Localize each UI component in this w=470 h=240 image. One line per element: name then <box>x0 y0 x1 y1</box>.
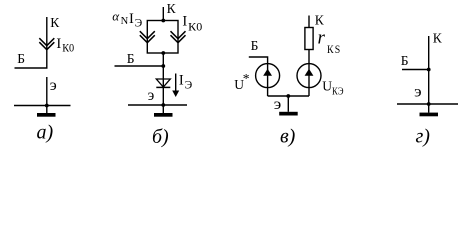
svg-text:К: К <box>433 31 443 46</box>
svg-text:I: I <box>129 11 134 27</box>
wire bottom rail (fig v) <box>268 88 309 96</box>
wire base (fig b) <box>115 65 164 67</box>
junction dot base (fig b) <box>161 64 165 68</box>
wire emitter rail (fig g) <box>397 103 458 105</box>
box of two current-source branches (fig b) <box>147 21 178 54</box>
svg-text:К0: К0 <box>188 22 202 34</box>
wire collector + base L (fig a) <box>15 17 47 68</box>
svg-text:К: К <box>50 15 60 30</box>
current arrow alphaN IE chevrons left branch (fig b) <box>140 31 155 43</box>
source U_KE circle (fig v) <box>297 64 321 88</box>
current arrow I_K0 chevrons (fig a) <box>39 38 54 50</box>
svg-text:в): в) <box>280 126 296 148</box>
junction dot rail (fig b) <box>161 103 165 107</box>
svg-text:*: * <box>243 71 250 86</box>
junction dot rail (fig g) <box>427 102 431 106</box>
svg-text:Б: Б <box>401 53 409 68</box>
svg-text:Б: Б <box>251 38 259 53</box>
svg-text:э: э <box>414 84 422 101</box>
label U* (fig v) <box>234 71 250 92</box>
resistor r_KS (fig v) <box>305 28 313 50</box>
junction dot (fig v) <box>286 94 290 98</box>
wire collector stub (fig b) <box>162 7 164 21</box>
wire base lead (fig v) <box>249 57 268 64</box>
label alphaN IE (fig b) <box>112 9 142 30</box>
ground (fig b) <box>162 105 164 113</box>
junction dot base (fig g) <box>427 68 431 72</box>
arrow inside U* (fig v) <box>267 64 269 88</box>
junction dot bottom (fig b) <box>161 51 165 55</box>
svg-text:К0: К0 <box>62 43 74 55</box>
arrow inside U_KE (fig v) <box>308 64 310 88</box>
svg-text:N: N <box>121 16 129 27</box>
label U_KE (fig v) <box>322 79 343 98</box>
wire resistor to source (fig v) <box>308 50 310 64</box>
source U* circle (fig v) <box>256 64 280 88</box>
label I_E (fig b) <box>179 73 193 92</box>
wire center vertical (fig b) <box>162 53 164 105</box>
svg-text:I: I <box>56 36 61 52</box>
svg-text:Б: Б <box>17 51 25 66</box>
diode VD (fig b) <box>156 79 170 87</box>
svg-text:r: r <box>318 28 326 49</box>
svg-text:α: α <box>112 9 120 24</box>
svg-text:КЭ: КЭ <box>332 86 344 98</box>
label I_K0 (fig b) <box>182 14 202 34</box>
svg-text:э: э <box>274 96 282 113</box>
svg-text:б): б) <box>152 126 169 148</box>
ground (fig g) <box>428 104 430 113</box>
junction dot (fig a) <box>45 104 49 108</box>
ground (fig v) <box>287 96 289 112</box>
label I_K0 (fig a) <box>56 36 74 55</box>
svg-text:Э: Э <box>135 18 143 30</box>
svg-text:э: э <box>50 77 57 94</box>
svg-text:I: I <box>179 73 184 89</box>
arrow I_E (fig b) <box>175 74 177 92</box>
svg-text:К: К <box>315 13 325 28</box>
svg-text:КS: КS <box>327 42 342 56</box>
wire collector-emitter vertical (fig g) <box>428 36 430 104</box>
svg-text:а): а) <box>37 122 54 144</box>
svg-text:К: К <box>167 1 177 16</box>
svg-text:э: э <box>148 87 155 104</box>
svg-text:г): г) <box>416 126 431 148</box>
svg-text:U: U <box>322 79 332 94</box>
svg-text:I: I <box>182 14 187 30</box>
svg-text:Э: Э <box>185 80 193 92</box>
junction dot top (fig b) <box>161 19 165 23</box>
wire collector lead (fig v) <box>308 16 310 28</box>
wire emitter rail (fig b) <box>128 104 187 106</box>
svg-text:Б: Б <box>127 51 135 66</box>
ground (fig a) <box>46 106 48 114</box>
current arrow I_K0 chevrons right branch (fig b) <box>171 31 186 43</box>
wire emitter rail (fig a) <box>14 105 71 107</box>
label r_KS (fig v) <box>318 28 342 57</box>
wire emitter stub (fig a) <box>46 77 48 106</box>
wire base (fig g) <box>402 69 429 71</box>
